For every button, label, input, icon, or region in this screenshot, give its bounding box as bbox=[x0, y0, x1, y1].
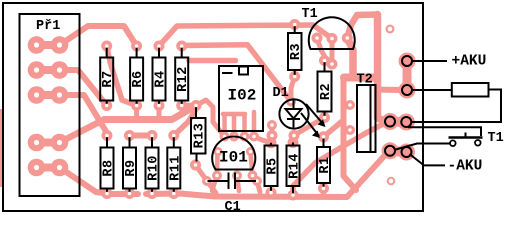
pad IO2 pin4 bbox=[249, 132, 259, 142]
pad R4 bottom bbox=[154, 100, 165, 111]
pad R7 bottom bbox=[101, 100, 112, 111]
wire T2 vertical to R1 top bbox=[324, 120, 344, 137]
pad R1 top bbox=[318, 131, 329, 142]
pad R13 top bbox=[191, 100, 202, 111]
svg-text:R1: R1 bbox=[318, 156, 333, 173]
svg-text:T2: T2 bbox=[357, 73, 373, 88]
wire IO1 pin1 via bbox=[212, 153, 218, 191]
svg-text:+AKU: +AKU bbox=[452, 54, 487, 70]
svg-text:R13: R13 bbox=[193, 123, 208, 149]
wire R3 bottom to D1 anode bbox=[291, 77, 295, 102]
svg-text:-AKU: -AKU bbox=[448, 159, 483, 175]
pad IO1 left bbox=[214, 147, 223, 156]
wire R8-R9-R10 tops bus bbox=[130, 133, 153, 139]
svg-text:R5: R5 bbox=[266, 157, 281, 174]
pad mount hole bottom right bbox=[387, 177, 396, 186]
wire pair B bar bbox=[390, 151, 407, 152]
pad IO2 pin2 bbox=[229, 132, 239, 142]
wire R12 top run to D1 anode bbox=[182, 45, 291, 102]
pad T1 emitter bbox=[312, 33, 323, 44]
svg-text:R2: R2 bbox=[319, 83, 334, 100]
svg-text:R14: R14 bbox=[288, 153, 303, 179]
wire +AKU pads bar bbox=[403, 62, 412, 89]
LED D1 bbox=[273, 86, 326, 138]
pad T2 pin2 bbox=[345, 125, 355, 135]
wire R13 bottom to bus bbox=[196, 165, 217, 193]
pad R11 bottom bbox=[168, 188, 179, 199]
wire junction to IO2 pin 1 bbox=[196, 100, 225, 137]
svg-text:R4: R4 bbox=[154, 70, 169, 87]
pad R5 top bbox=[266, 137, 277, 148]
pad R11 top bbox=[168, 130, 179, 141]
svg-text:T1: T1 bbox=[302, 7, 318, 22]
pad R10 bottom bbox=[147, 188, 158, 199]
pad IO1 via2 bbox=[232, 171, 242, 181]
pad R12 bottom bbox=[176, 100, 187, 111]
pad R6 bottom bbox=[131, 100, 142, 111]
svg-text:R12: R12 bbox=[176, 66, 191, 92]
resistor R3 bbox=[288, 23, 304, 79]
wire bottom bus bbox=[104, 191, 138, 197]
wire Př1 row5 to bottom bus bbox=[60, 168, 108, 194]
svg-text:C1: C1 bbox=[225, 200, 241, 214]
wire IO2 inner cross bar bbox=[223, 112, 245, 117]
resistor R7 bbox=[100, 44, 116, 107]
wire T2 pad1 stub bbox=[344, 105, 351, 108]
pad terminal A2 bbox=[398, 114, 415, 131]
capacitor C1 bbox=[208, 173, 257, 216]
pad R5 bottom bbox=[266, 187, 277, 198]
wire T2 pad2 stub bbox=[344, 130, 351, 133]
svg-text:R8: R8 bbox=[102, 159, 117, 176]
pad R12 top bbox=[176, 41, 187, 52]
wire C1 right to bus bbox=[257, 181, 260, 192]
terminal rings pair A bbox=[385, 117, 395, 127]
pushbutton T1 bbox=[449, 131, 504, 146]
wire R5 bottom stub bbox=[269, 193, 274, 197]
wire D1 column bbox=[270, 125, 275, 136]
pad terminal B2 bbox=[398, 144, 415, 161]
wire IO1 pin3 via bbox=[251, 153, 257, 180]
resistor R13 bbox=[191, 104, 208, 167]
wire pair A bar bbox=[390, 117, 406, 128]
resistor R8 bbox=[101, 134, 117, 196]
wire T1 right pad down bbox=[347, 38, 353, 76]
resistor R6 bbox=[130, 44, 146, 107]
wire top bus R4 to R3 bbox=[159, 25, 332, 46]
pad R2 top bbox=[319, 55, 330, 66]
wire R4 bottom stub bbox=[157, 106, 162, 120]
ballast resistor bbox=[452, 83, 489, 97]
svg-text:R9: R9 bbox=[124, 159, 139, 176]
pad holes (white centers) bbox=[34, 27, 393, 184]
wire R12 bottom to R13 top bbox=[182, 103, 191, 109]
pad R1 bottom bbox=[318, 183, 329, 194]
terminal ring +AKU top bbox=[402, 56, 412, 66]
pad terminal B1 bbox=[382, 142, 399, 159]
svg-text:R3: R3 bbox=[289, 43, 304, 60]
transistor T1 (TO-39) bbox=[302, 7, 355, 49]
wire mid bus to R13 top bbox=[104, 106, 196, 120]
wire IO2 pin4 bar bbox=[252, 112, 257, 137]
pad R9 bottom bbox=[124, 188, 135, 199]
pad IO2 pin1 bbox=[220, 132, 230, 142]
pad T2 pin1 bbox=[345, 100, 355, 110]
board outline bbox=[3, 3, 423, 211]
wire edge sliver left bbox=[0, 109, 3, 187]
pad Př1 row4 bbox=[37, 139, 60, 147]
pad R7 top bbox=[101, 41, 112, 52]
pad D1 cathode bbox=[289, 130, 300, 141]
terminal ring resistor feed bbox=[402, 85, 412, 95]
wire R7 top to R6 bottom bbox=[107, 46, 137, 106]
wire IO2 pin1 bar bbox=[222, 114, 227, 137]
pad IO2 pin3 bbox=[240, 132, 250, 142]
pad R8 bottom bbox=[102, 188, 113, 199]
pad T1 base bbox=[327, 33, 338, 44]
svg-text:I01: I01 bbox=[219, 149, 248, 167]
wire resistor to pair A bbox=[411, 90, 501, 123]
wire IO2 pin2 bar bbox=[232, 114, 237, 137]
pad R10 top bbox=[147, 130, 158, 141]
pad R6 top bbox=[131, 41, 142, 52]
wire +AKU lead bbox=[412, 60, 447, 62]
svg-text:R6: R6 bbox=[131, 70, 146, 87]
wire Př1 row2 to R7 bottom bbox=[60, 70, 107, 106]
resistor R4 bbox=[153, 44, 169, 107]
svg-text:R10: R10 bbox=[147, 155, 162, 181]
wire IO2 top pin run bbox=[189, 58, 236, 64]
pad R14 bottom bbox=[288, 190, 299, 201]
wire pair B to -AKU bbox=[410, 154, 446, 165]
pad R3 top bbox=[289, 19, 300, 30]
wire R1 bottom stub bbox=[321, 188, 326, 196]
wire IO1 pin2 stub bbox=[237, 176, 239, 192]
wire T2 vertical bbox=[344, 78, 357, 191]
pad IO1 right bbox=[246, 147, 255, 156]
wire to ballast resistor bbox=[412, 89, 452, 91]
IC IO2 bbox=[219, 66, 263, 131]
pad T1 collector bbox=[342, 33, 353, 44]
resistor R12 bbox=[175, 44, 191, 107]
connector Př1 outline bbox=[20, 14, 80, 196]
wire IO2 pin to R5 top bbox=[254, 137, 271, 143]
pad D1 via bbox=[267, 120, 277, 130]
resistor R2 bbox=[318, 59, 335, 120]
pad R14 top bbox=[288, 137, 299, 148]
wire to +AKU pad bbox=[378, 87, 403, 94]
svg-text:I02: I02 bbox=[228, 87, 257, 105]
pad C1 left bbox=[202, 176, 212, 186]
pad D1 left bbox=[267, 130, 278, 141]
svg-text:T1: T1 bbox=[488, 131, 504, 146]
svg-text:D1: D1 bbox=[273, 86, 289, 101]
pad R13 bottom bbox=[190, 160, 201, 171]
wire bottom bus right part bbox=[146, 154, 386, 197]
svg-text:R7: R7 bbox=[101, 70, 116, 87]
resistor R9 bbox=[123, 134, 139, 196]
pads: connector Př1 bbox=[28, 36, 69, 176]
wire IO2 pin3 bar bbox=[242, 114, 247, 137]
pad R8 top bbox=[102, 130, 113, 141]
wire R2 bottom to D1 cathode bbox=[298, 118, 325, 134]
resistor R11 bbox=[167, 134, 183, 196]
wire right bus vertical bbox=[378, 15, 386, 122]
svg-text:R11: R11 bbox=[168, 155, 183, 181]
terminal rings pair B bbox=[385, 146, 395, 156]
pad Př1 row1 bbox=[37, 41, 60, 49]
wire T1 left pad to R2 top bbox=[317, 38, 325, 61]
pad R3 bottom bbox=[289, 71, 300, 82]
pad Př1 row3 bbox=[37, 91, 60, 99]
pad C1 right bbox=[252, 176, 262, 186]
pad terminal resistor feed bbox=[399, 82, 416, 99]
wire pair A to R14 bottom diagonal bbox=[293, 121, 389, 192]
pad Př1 row5 bbox=[37, 164, 60, 172]
pad R9 top bbox=[124, 130, 135, 141]
pad R2 bottom bbox=[319, 112, 330, 123]
IC IO1 (TO-92) bbox=[212, 136, 255, 169]
resistor R1 bbox=[317, 135, 333, 190]
svg-text:Př1: Př1 bbox=[36, 19, 60, 34]
wire Př1 row3 to R8 top bbox=[60, 95, 108, 133]
pad IO1 via3 bbox=[248, 171, 258, 181]
pad mount hole top right bbox=[386, 25, 395, 34]
wire R6 bottom stub bbox=[134, 106, 139, 120]
wire T1 right pad to top-right run bbox=[347, 15, 377, 39]
pad R4 top bbox=[154, 41, 165, 52]
pad D1 anode bbox=[286, 97, 296, 107]
wire R11 top to R13 top bbox=[174, 111, 195, 136]
transistor T2 bbox=[357, 73, 376, 153]
wire button to pair B bbox=[394, 144, 450, 151]
pad IO1 via1 bbox=[212, 171, 222, 181]
pad terminal +AKU bbox=[399, 53, 416, 70]
pad terminal A1 bbox=[382, 113, 399, 130]
resistor R5 bbox=[265, 143, 281, 195]
pad T1 base via bbox=[327, 59, 338, 70]
pad Př1 row2 bbox=[37, 66, 60, 74]
wire T1 mid pad down bbox=[330, 39, 335, 65]
wire pair A to button bbox=[408, 127, 481, 136]
wire Př1 row1 to R6 top bbox=[60, 26, 137, 46]
wire Př1 row4 to mid bus bbox=[60, 120, 105, 143]
resistor R14 bbox=[287, 143, 303, 197]
resistor R10 bbox=[146, 134, 162, 196]
wire right bus horizontal bbox=[344, 74, 375, 82]
